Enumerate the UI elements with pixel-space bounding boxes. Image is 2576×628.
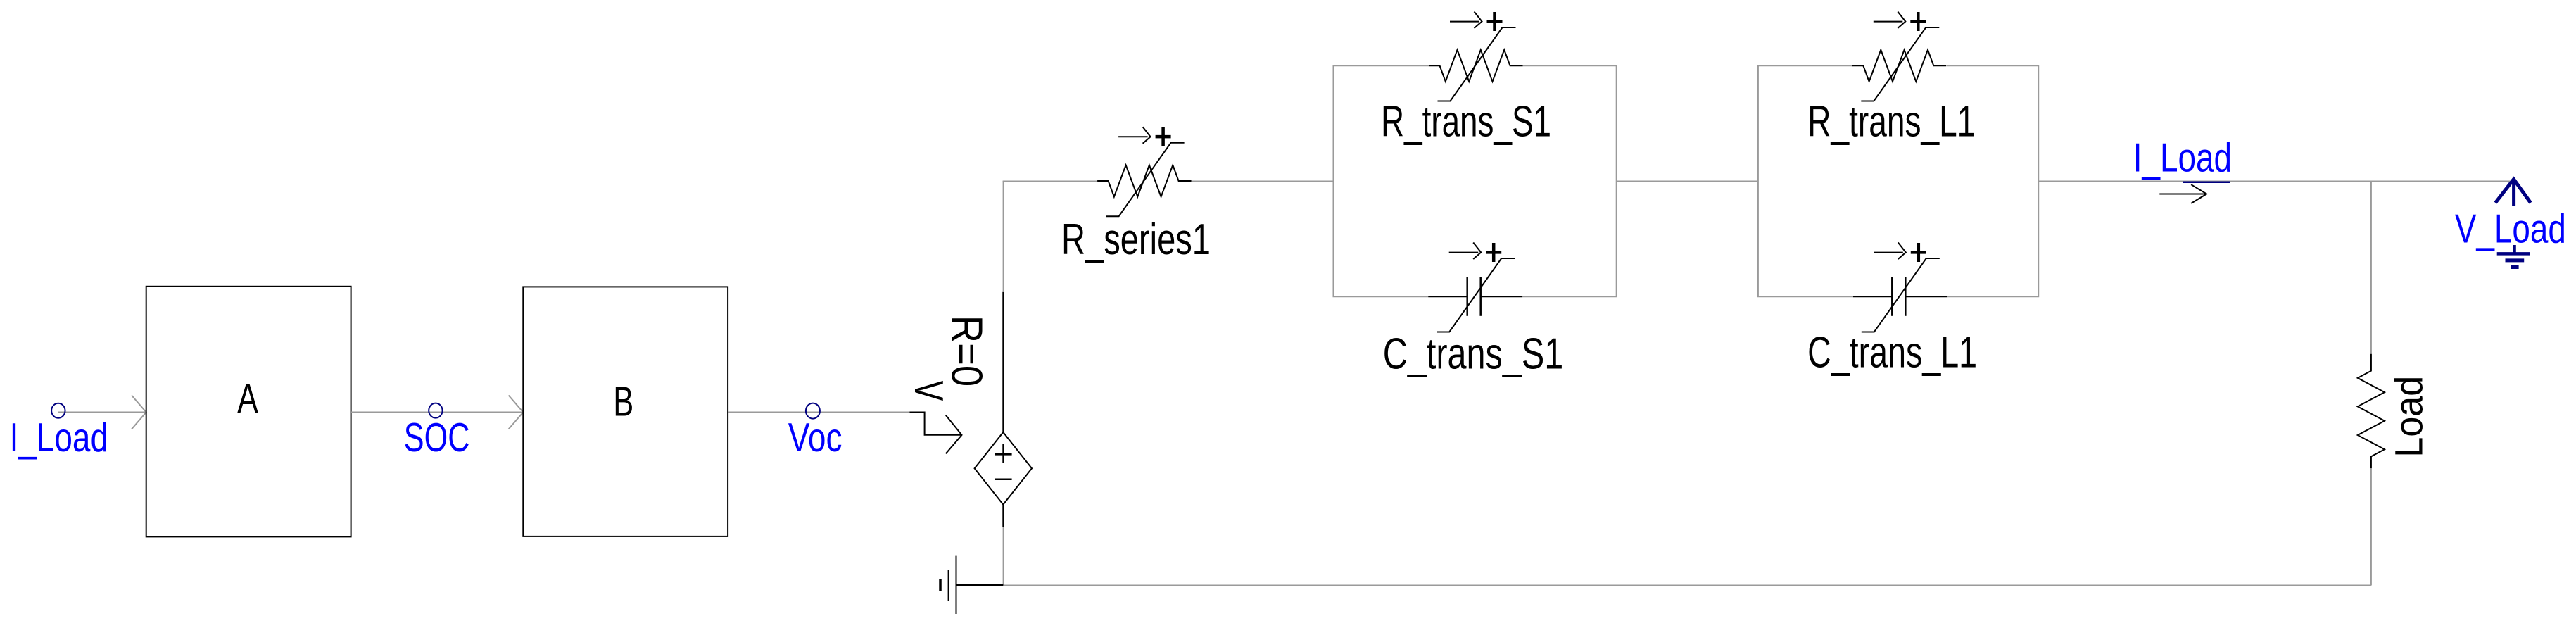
wire box2 to load corner	[2038, 181, 2371, 182]
wire R_series1 to box1	[1192, 181, 1334, 182]
resistor R_trans_L1	[1852, 50, 1947, 82]
E1 minus sign	[995, 479, 1012, 481]
node I_Load circle	[51, 403, 65, 418]
wire stub to V_Load probe	[2371, 181, 2511, 182]
wire box1 to box2	[1617, 181, 1758, 182]
wire block B to source control	[728, 412, 909, 413]
wire E1 bottom to ground rail	[1003, 527, 1004, 585]
input arrowhead block B	[509, 396, 524, 429]
svg-text:C_trans_S1: C_trans_S1	[1383, 330, 1564, 379]
E1 plus sign	[995, 453, 1012, 456]
wire E1 top to rail corner	[1003, 181, 1004, 292]
wire corner down to Load resistor	[2370, 181, 2372, 354]
svg-text:C_trans_L1: C_trans_L1	[1807, 329, 1977, 377]
node Voc circle	[806, 403, 820, 419]
block B	[523, 287, 728, 536]
resistor R_trans_S1	[1429, 50, 1523, 82]
bottom rail wire	[1003, 585, 2370, 586]
I_Load probe underline	[2183, 182, 2230, 184]
RC box 2 outline	[1758, 65, 2038, 296]
svg-text:Voc: Voc	[788, 415, 842, 460]
svg-text:I_Load: I_Load	[2133, 136, 2232, 181]
V_Load probe arrow	[2496, 180, 2531, 206]
ground symbol	[940, 556, 1003, 614]
svg-text:SOC: SOC	[404, 415, 470, 460]
wire block A to block B	[351, 412, 523, 413]
input arrowhead block A	[132, 396, 146, 429]
svg-text:R_trans_L1: R_trans_L1	[1807, 98, 1975, 146]
V_Load ground marker	[2497, 245, 2530, 268]
svg-text:R_trans_S1: R_trans_S1	[1381, 98, 1551, 146]
voltage source E1 diamond	[975, 432, 1032, 505]
svg-text:A: A	[237, 375, 258, 422]
I_Load current arrow	[2159, 184, 2206, 203]
resistor Load	[2358, 354, 2385, 469]
top rail wire corner to R_series1	[1003, 181, 1098, 182]
resistor R_series1	[1097, 165, 1192, 197]
svg-text:R=0: R=0	[942, 315, 990, 387]
wire Load bottom to bottom rail	[2370, 468, 2372, 585]
svg-text:I_Load: I_Load	[10, 415, 108, 460]
svg-text:Load: Load	[2386, 376, 2430, 458]
C_trans_L1 variable arrow decoration	[1862, 243, 1940, 332]
capacitor C_trans_L1	[1853, 277, 1947, 316]
voltage source E1 top lead	[1002, 292, 1004, 432]
R_series1 variable arrow decoration	[1106, 127, 1185, 216]
capacitor C_trans_S1	[1428, 277, 1522, 316]
R_trans_S1 variable arrow decoration	[1438, 12, 1516, 101]
block A	[146, 287, 351, 537]
voltage source E1 bottom lead	[1002, 505, 1004, 527]
svg-text:V_Load: V_Load	[2455, 206, 2566, 251]
svg-text:B: B	[613, 379, 633, 425]
R_trans_L1 variable arrow decoration	[1861, 12, 1939, 101]
C_trans_S1 variable arrow decoration	[1437, 243, 1515, 332]
node SOC circle	[429, 403, 442, 418]
wire I_Load input to block A	[58, 412, 146, 413]
svg-text:R_series1: R_series1	[1061, 215, 1211, 264]
source control step arrow	[909, 413, 961, 454]
RC box 1 outline	[1334, 65, 1617, 296]
